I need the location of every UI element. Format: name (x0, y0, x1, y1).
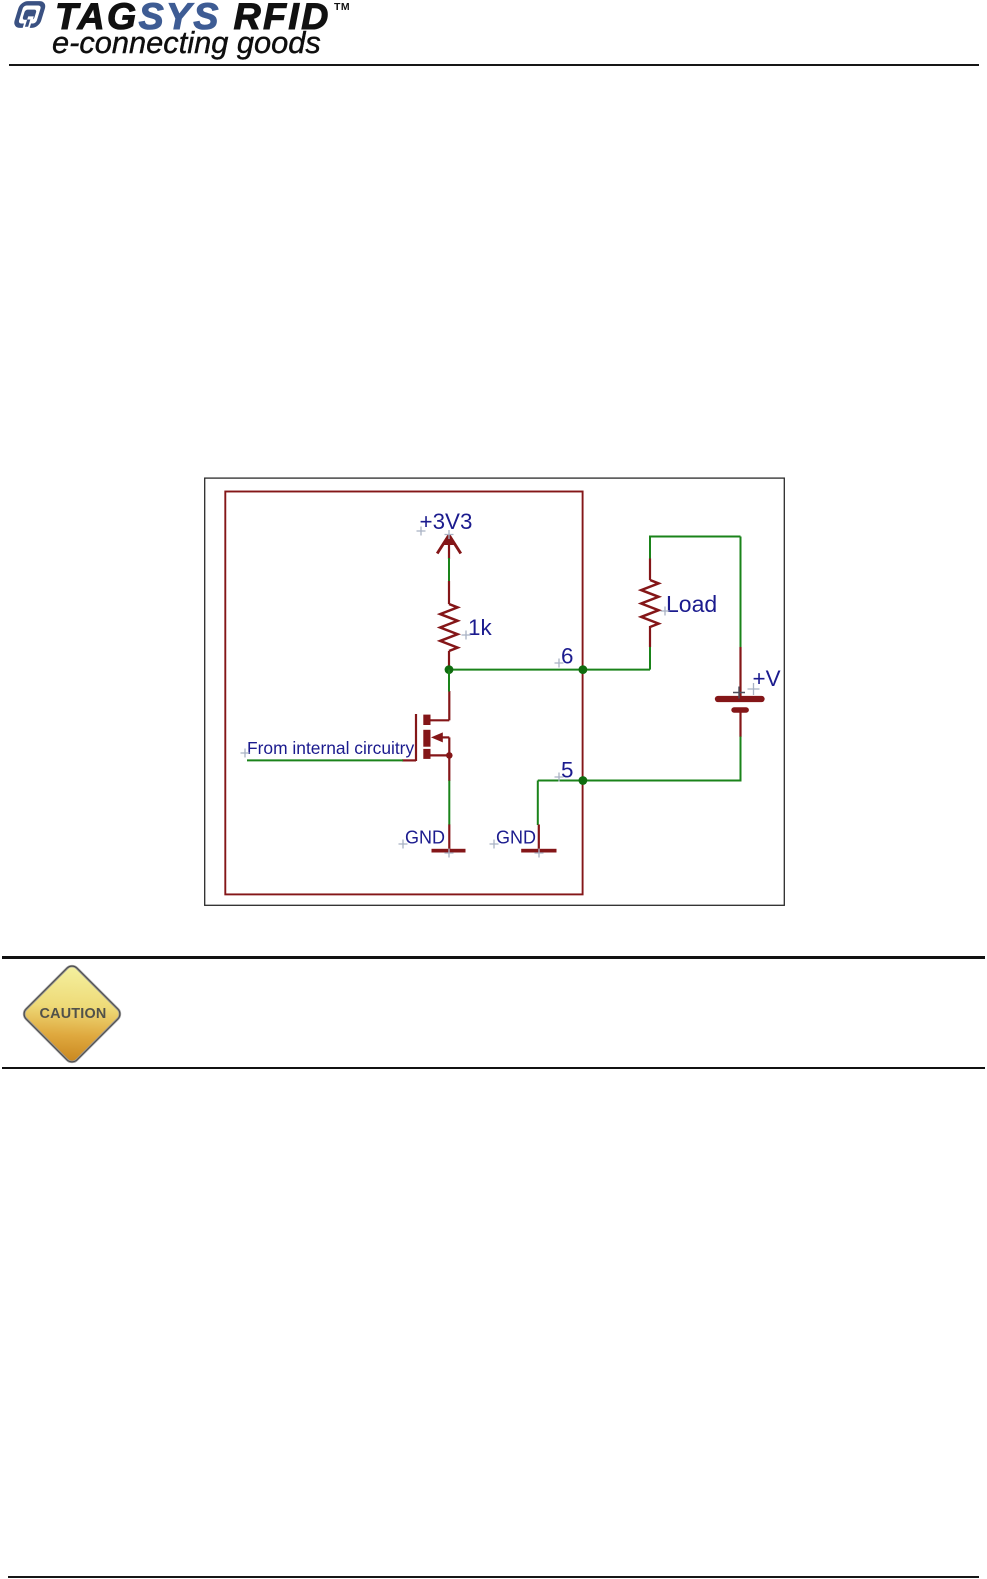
header rule (9, 64, 979, 66)
wire +3V3 to R1 (448, 558, 450, 582)
label Load (666, 591, 717, 617)
transistor Q1 source lead (431, 754, 450, 756)
wire node 6 horizontal (449, 669, 650, 671)
svg-text:GND: GND (496, 828, 536, 848)
origin cross ground symbol right (535, 849, 544, 858)
battery V negative pin (739, 713, 741, 738)
junction Q1 source/body (446, 752, 453, 759)
origin cross pin 5 (555, 773, 564, 782)
svg-text:GND: GND (405, 828, 445, 848)
wire node 6 to Q1 drain (448, 670, 450, 692)
origin cross Load (661, 607, 670, 616)
wire node 6 up to Load (649, 647, 651, 670)
label From internal circuitry (247, 738, 414, 758)
power symbol +3V3 arrow (437, 534, 461, 559)
ground pin right (538, 825, 540, 850)
label GND right (496, 828, 536, 848)
figure frame (205, 478, 785, 905)
junction R1/Q1 drain (445, 665, 454, 674)
IC boundary box (225, 492, 582, 895)
origin cross pin 6 (555, 659, 564, 668)
svg-text:+V: +V (753, 666, 781, 691)
svg-text:1k: 1k (468, 615, 492, 640)
transistor Q1 body channel bar (423, 730, 430, 747)
origin cross battery (733, 687, 745, 699)
svg-text:6: 6 (561, 644, 573, 669)
transistor Q1 gate bar (415, 714, 417, 761)
transistor Q1 source channel bar (423, 749, 430, 759)
caution top rule (2, 956, 985, 959)
origin cross GND right label (490, 840, 499, 849)
svg-text:Load: Load (666, 591, 717, 617)
pin number 6 (561, 644, 573, 669)
svg-text:From internal circuitry: From internal circuitry (247, 738, 414, 758)
origin cross From internal circuitry (241, 749, 250, 758)
svg-text:+3V3: +3V3 (420, 509, 473, 534)
logo text TAGSYS RFID (55, 0, 331, 36)
pin number 5 (561, 758, 573, 783)
resistor R1 bottom pin (448, 651, 450, 670)
wire battery to node 5 (740, 737, 742, 782)
logo icon Q (0, 0, 60, 36)
wire top horizontal (649, 536, 741, 538)
logo tagline e-connecting goods (52, 28, 321, 59)
label GND left (405, 828, 445, 848)
label +V (753, 666, 781, 691)
caution bottom rule (2, 1067, 985, 1070)
ground symbol left (432, 849, 466, 853)
svg-text:5: 5 (561, 758, 573, 783)
trademark TM (334, 1, 350, 13)
transistor Q1 gate pin (402, 759, 416, 761)
transistor Q1 drain lead (431, 691, 450, 720)
value label 1k (468, 615, 492, 640)
resistor Load bottom pin (649, 626, 651, 647)
footer rule (8, 1576, 979, 1578)
battery V negative plate (734, 707, 746, 712)
ground symbol right (521, 849, 556, 853)
transistor Q1 body arrow (431, 732, 449, 755)
origin cross +V (748, 683, 760, 695)
wire Q1 source to ground (448, 781, 450, 826)
origin cross GND left label (399, 840, 408, 849)
wire gate input (247, 759, 403, 761)
wire node 5 down to ground (537, 781, 539, 826)
origin cross 1k (462, 631, 471, 640)
resistor Load zigzag (641, 580, 658, 627)
wire node 5 horizontal (538, 780, 740, 782)
resistor Load top pin (649, 559, 651, 581)
battery V positive pin (739, 647, 741, 696)
wire down to battery (740, 537, 742, 649)
label +3V3 (420, 509, 473, 534)
junction node 5 on IC boundary (579, 776, 588, 785)
resistor R1 top pin (448, 581, 450, 604)
svg-text:CAUTION: CAUTION (40, 1006, 107, 1022)
transistor Q1 drain channel bar (423, 715, 430, 725)
battery V positive plate (718, 696, 762, 702)
transistor Q1 source pin (448, 755, 450, 781)
wire Load top up (649, 538, 651, 559)
caution diamond icon (12, 954, 142, 1084)
origin cross +3V3 (417, 527, 426, 536)
ground pin left (448, 825, 450, 850)
junction node 6 on IC boundary (579, 665, 588, 674)
origin cross ground symbol left (445, 849, 454, 858)
origin cross arrow apex (445, 530, 454, 539)
resistor R1 1k zigzag (440, 604, 457, 651)
